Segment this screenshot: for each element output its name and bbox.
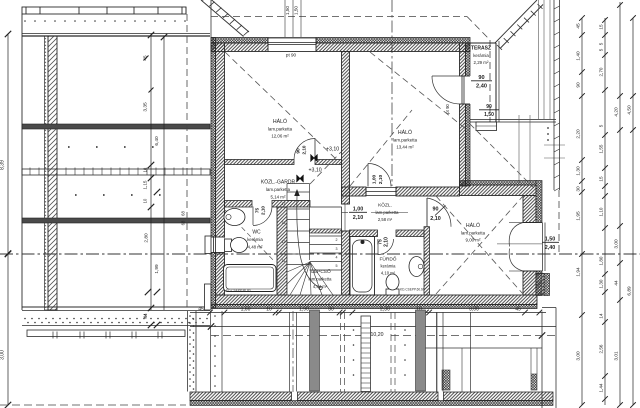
svg-text:12,06 m²: 12,06 m² <box>271 134 289 139</box>
svg-text:1,50: 1,50 <box>285 6 290 15</box>
HALO1 bottom wall <box>225 160 342 165</box>
svg-text:8,39: 8,39 <box>0 160 6 170</box>
svg-text:2,70: 2,70 <box>599 67 604 76</box>
svg-text:17: 17 <box>282 202 286 206</box>
lower floor wall line x470 <box>470 312 472 392</box>
HALO3 right wall <box>523 181 550 296</box>
svg-text:1,50: 1,50 <box>484 112 494 118</box>
svg-text:90: 90 <box>576 82 582 88</box>
spot level +3,10 lower with benchmark <box>296 168 321 183</box>
overall dimension 10,20 <box>190 323 556 338</box>
left inner dimension line with 3,35 6,40 <box>143 32 186 328</box>
svg-text:15: 15 <box>599 24 604 30</box>
wall between FURDO/KOZL and HALO3 <box>424 227 430 295</box>
room LEPCSO label <box>308 268 332 289</box>
diagonal dashed KOZLGARDR <box>310 152 341 184</box>
svg-text:KÖZL.-GARDR: KÖZL.-GARDR <box>261 179 296 186</box>
horizontal section line A-A <box>0 251 640 257</box>
svg-text:44: 44 <box>143 313 148 319</box>
svg-text:4: 4 <box>336 256 338 260</box>
eaves dashed outline <box>211 17 490 123</box>
WC door 75 swing <box>253 206 272 226</box>
left 44 and 45 labels near bottom chain <box>143 313 148 319</box>
eave edge lines right of terrace <box>539 0 551 119</box>
svg-text:2,10: 2,10 <box>353 215 364 221</box>
svg-text:14: 14 <box>599 313 604 319</box>
svg-text:2,30: 2,30 <box>380 307 390 313</box>
terrace door dim 90/2,40 <box>471 75 492 90</box>
interior wall stair/KOZL lower part <box>342 231 350 295</box>
svg-text:KD.CSEPP.60.60: KD.CSEPP.60.60 <box>400 288 425 292</box>
stair left flight <box>287 184 342 296</box>
FURDO product note <box>400 288 425 292</box>
left section: upper slab band <box>22 124 210 129</box>
lower floor dashed outline <box>211 329 556 348</box>
left wall WC window with sill <box>205 236 225 254</box>
dashed pair x391/395 below plan <box>391 312 406 392</box>
door KOZL-HALO3 90/2,10 <box>427 198 451 227</box>
left section: outer boundary verticals <box>22 7 186 310</box>
svg-text:1,90: 1,90 <box>299 307 309 313</box>
svg-text:1,80: 1,80 <box>599 256 604 265</box>
stair winder fan <box>287 262 333 295</box>
svg-text:1,40: 1,40 <box>576 51 582 61</box>
terrace door opening 90 <box>459 76 471 104</box>
svg-text:2,10: 2,10 <box>302 145 307 154</box>
room HALO1 label <box>268 118 293 139</box>
room WC label <box>247 230 263 250</box>
dashed boundary x559 below terrace <box>558 190 560 254</box>
svg-text:5: 5 <box>336 264 338 268</box>
door HALO2-KOZL swing and rotated labels <box>368 164 391 187</box>
svg-text:6,89: 6,89 <box>627 286 633 296</box>
diagonal dashed HALO2 up <box>350 110 412 186</box>
dashed pair x340/344 below plan <box>341 312 355 392</box>
svg-text:KÖZL.: KÖZL. <box>378 202 392 209</box>
svg-text:5: 5 <box>599 42 604 45</box>
FURDO bathtub <box>350 237 375 296</box>
svg-text:1,50: 1,50 <box>545 237 556 243</box>
svg-text:2,80: 2,80 <box>144 233 150 243</box>
exterior top wall with insulation <box>211 38 470 52</box>
left section: top double line <box>22 34 210 37</box>
svg-text:6,40: 6,40 <box>154 136 160 146</box>
lower floor wall columns below plan left <box>188 311 197 392</box>
svg-text:5: 5 <box>599 124 604 127</box>
svg-text:10: 10 <box>143 198 148 203</box>
svg-text:lam.parketta: lam.parketta <box>268 127 293 132</box>
stair walk line with arrow <box>294 189 322 290</box>
left section: top eaves band with dividers <box>22 7 186 14</box>
left section: plank row <box>27 330 185 339</box>
lower floor pier right <box>531 348 537 390</box>
svg-text:2,20: 2,20 <box>576 129 582 139</box>
svg-text:30: 30 <box>576 186 582 192</box>
interior wall between HALO1 and HALO2 <box>342 52 350 205</box>
svg-text:3,00: 3,00 <box>614 239 620 249</box>
HALO3 top wall <box>460 181 537 196</box>
diagonal dashed HALO2 down <box>370 52 466 129</box>
grey flue bar 1 <box>310 310 320 391</box>
WC shower tray <box>224 265 277 292</box>
WC washbasin <box>224 209 245 226</box>
window centreline above top wall <box>285 0 301 37</box>
KOZL top wall (HALO2 bottom) <box>342 187 460 196</box>
lower floor right boundary <box>542 308 556 408</box>
svg-text:1,99: 1,99 <box>154 264 160 274</box>
svg-text:3,35: 3,35 <box>143 102 149 112</box>
door KOZLGARDR-KOZL 1,00 frame lines <box>342 204 350 231</box>
roof verge batten band top-right <box>495 0 543 50</box>
svg-text:1,10: 1,10 <box>599 207 604 216</box>
left section: lower slab band <box>22 218 210 223</box>
FURDO top wall <box>350 230 425 237</box>
right dimension chain A x582 <box>576 15 585 408</box>
diagonal dashed WC <box>225 210 275 262</box>
stair floor background <box>287 207 342 295</box>
room KOZL-GARDR label <box>261 179 296 200</box>
room FURDO label <box>379 256 396 276</box>
svg-text:2,10: 2,10 <box>430 216 441 222</box>
svg-text:3,00: 3,00 <box>0 350 6 360</box>
left section: hatched wall <box>45 36 58 310</box>
svg-text:2,10: 2,10 <box>261 206 266 215</box>
middle wall WC top <box>225 201 311 208</box>
left section: dotted row under eaves <box>24 20 186 22</box>
svg-text:TERASZ: TERASZ <box>471 46 491 52</box>
svg-text:90: 90 <box>433 207 439 213</box>
left section: vertical dashed property line <box>186 14 188 310</box>
svg-text:45: 45 <box>198 307 204 313</box>
svg-text:10: 10 <box>143 167 148 172</box>
KOZL top wall opening lines <box>366 188 396 196</box>
svg-text:lam.parketta: lam.parketta <box>393 138 418 143</box>
room KOZL label <box>371 202 408 223</box>
svg-text:2,29 m²: 2,29 m² <box>474 60 489 65</box>
svg-text:2,58 m²: 2,58 m² <box>378 217 393 222</box>
right section cut double line with rungs <box>554 0 560 191</box>
svg-text:pt 90: pt 90 <box>286 53 297 58</box>
right dimension chain D x633 <box>627 15 636 408</box>
svg-text:1,00: 1,00 <box>353 207 364 213</box>
lower floor lines right of flue <box>437 312 462 392</box>
svg-text:3,00: 3,00 <box>469 307 479 313</box>
svg-text:kerámia: kerámia <box>473 53 489 58</box>
svg-text:15: 15 <box>282 221 286 225</box>
svg-text:1,00: 1,00 <box>372 175 378 185</box>
svg-text:HÁLÓ: HÁLÓ <box>273 118 287 125</box>
outer wall face line extension top-left <box>210 0 212 37</box>
bottom hatched floor band <box>190 392 553 406</box>
svg-text:45: 45 <box>143 55 148 61</box>
svg-text:45: 45 <box>576 23 582 29</box>
downpipe protrusion bottom-left of plan <box>205 284 212 310</box>
terrace room label <box>471 46 491 66</box>
svg-text:kerámia: kerámia <box>381 264 397 269</box>
left dimension line 8,39 <box>0 31 11 408</box>
svg-text:WC: WC <box>252 230 261 236</box>
diagonal dashed HALO1 <box>225 52 337 160</box>
svg-text:FÜRDŐ: FÜRDŐ <box>379 256 396 263</box>
section line vertical through HALO 2 <box>391 0 393 186</box>
svg-text:44: 44 <box>614 280 620 286</box>
svg-text:1,30: 1,30 <box>599 279 604 288</box>
spot level +3,10 upper with benchmark <box>310 147 339 162</box>
left section: bottom double line <box>22 307 210 311</box>
svg-text:2,56: 2,56 <box>599 344 604 353</box>
terrace window sill 1,50 <box>476 122 497 131</box>
svg-text:10,20: 10,20 <box>371 332 384 338</box>
top wall window 1,50 <box>268 38 316 58</box>
svg-text:10: 10 <box>266 307 272 313</box>
right dimension chain C x620 <box>614 2 623 408</box>
svg-text:90: 90 <box>486 104 492 110</box>
bottom dimension chain <box>190 307 546 316</box>
grey flue bar 2 <box>416 310 426 391</box>
exterior bottom wall with insulation <box>211 295 537 309</box>
HALO2 right wall facing terrace <box>460 43 471 186</box>
svg-text:4,20: 4,20 <box>614 107 620 117</box>
svg-text:3: 3 <box>336 247 338 251</box>
svg-text:45: 45 <box>515 307 521 313</box>
terrace outline <box>470 41 556 122</box>
svg-text:13: 13 <box>282 240 286 244</box>
exterior left wall with insulation <box>211 38 225 309</box>
svg-text:2,40: 2,40 <box>545 245 556 251</box>
svg-text:68: 68 <box>181 211 186 216</box>
diagonal dashed HALO3 X <box>436 196 523 294</box>
left section: masonry course band <box>22 168 210 176</box>
svg-text:2,40: 2,40 <box>476 84 487 90</box>
svg-text:11: 11 <box>282 259 286 263</box>
svg-text:HÁLÓ: HÁLÓ <box>398 129 412 136</box>
svg-text:HÁLÓ: HÁLÓ <box>466 222 480 229</box>
svg-text:5: 5 <box>599 48 604 51</box>
svg-text:68: 68 <box>181 220 186 225</box>
stair step numbers <box>282 202 338 268</box>
svg-text:3,00: 3,00 <box>576 351 582 361</box>
svg-text:1,50: 1,50 <box>294 6 299 15</box>
room HALO3 label <box>461 222 486 243</box>
terrace window dim 90/1,50 <box>479 104 499 118</box>
svg-text:30: 30 <box>328 307 334 313</box>
svg-text:2: 2 <box>336 238 338 242</box>
HALO1 door 90 swing <box>294 138 315 160</box>
svg-text:1,30: 1,30 <box>576 166 582 176</box>
bottom left dashed ground line <box>0 404 186 406</box>
svg-text:lam.parketta: lam.parketta <box>461 231 486 236</box>
left section: sparse dot rows <box>68 146 161 196</box>
svg-text:1,94: 1,94 <box>576 267 582 277</box>
outside zone dashed roof line right <box>470 115 565 188</box>
svg-text:+3,10: +3,10 <box>309 168 322 174</box>
svg-text:+3,10: +3,10 <box>326 147 339 153</box>
svg-text:2,10: 2,10 <box>384 237 390 247</box>
chimney brick column <box>361 316 371 392</box>
WC right wall <box>277 207 287 295</box>
centreline dash-dot x293 below plan <box>290 311 297 392</box>
svg-text:1,95: 1,95 <box>576 211 582 221</box>
svg-text:4,50: 4,50 <box>627 105 633 115</box>
left section: bottom dotted insulation band <box>22 318 210 326</box>
svg-text:5,14 m²: 5,14 m² <box>271 195 286 200</box>
svg-text:2,10: 2,10 <box>378 175 384 185</box>
svg-text:KD.CSEPP.80.80: KD.CSEPP.80.80 <box>226 289 251 293</box>
svg-text:1,15: 1,15 <box>143 180 148 189</box>
svg-text:1,44: 1,44 <box>599 383 604 392</box>
door KOZL-GARDR-KOZL 1,00/2,10 labels <box>330 207 367 222</box>
svg-text:13,44 m²: 13,44 m² <box>396 145 414 150</box>
terrace door swing arc <box>432 76 460 114</box>
svg-text:15: 15 <box>599 176 604 182</box>
stair landing edge strip <box>310 229 342 233</box>
WC toilet <box>225 238 248 253</box>
WC product note <box>226 289 251 293</box>
roof verge batten band top-left <box>201 0 249 36</box>
svg-text:3,01: 3,01 <box>614 351 620 361</box>
HALO3 window dim 1,50/2,40 <box>497 237 559 252</box>
lower floor wall lines x 208-222 <box>211 311 223 392</box>
svg-text:90: 90 <box>478 75 484 81</box>
svg-text:1,55: 1,55 <box>599 144 604 153</box>
FURDO door 75 bold labels <box>378 237 394 255</box>
HALO3 french window 1,50 with double swing <box>509 223 545 272</box>
right dimension chain B x605 <box>599 17 608 405</box>
stair right flight <box>310 236 342 270</box>
gap boundary lines x436-443 <box>437 312 444 392</box>
svg-text:1,60: 1,60 <box>241 307 251 313</box>
room HALO2 label <box>393 129 418 150</box>
FURDO washbasin <box>409 257 424 277</box>
FURDO toilet <box>386 274 399 295</box>
dots column right of terrace <box>547 127 549 141</box>
